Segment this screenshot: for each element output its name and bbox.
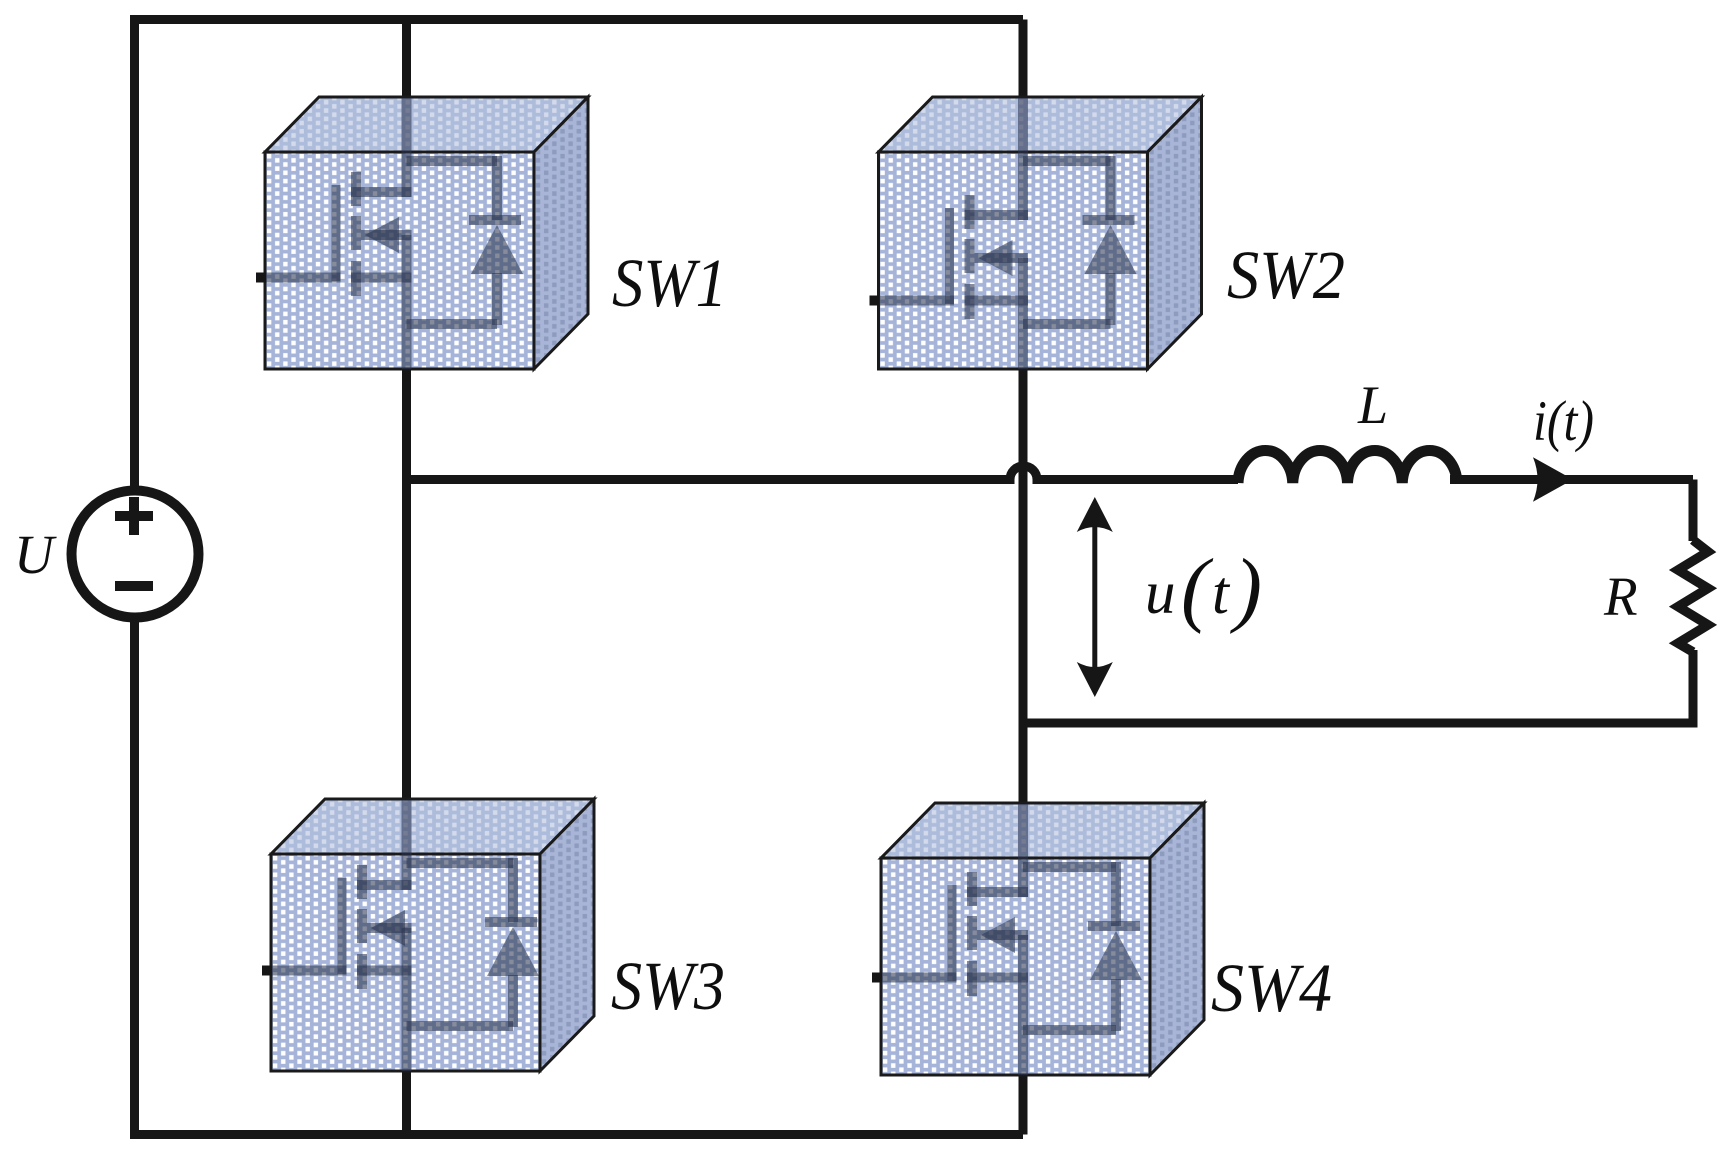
body arrow bar [367, 923, 412, 933]
svg-text:L: L [1357, 375, 1388, 435]
wire load right upper [1689, 480, 1698, 542]
channel top segment [967, 872, 977, 906]
gate bar [332, 185, 341, 281]
box right face [1148, 97, 1202, 369]
diode triangle [487, 927, 539, 976]
body arrow head [371, 910, 405, 946]
svg-text:t: t [1212, 560, 1231, 627]
gate lead [271, 966, 347, 976]
diode bottom bar [1023, 319, 1111, 329]
body arrow bar [975, 253, 1029, 263]
gate terminal stub [872, 973, 882, 983]
drain bar [357, 880, 412, 890]
body arrow head [365, 217, 399, 253]
diode bottom bar [407, 319, 498, 329]
box front face [271, 854, 540, 1071]
switch SW3: 3D box with MOSFET + body diode [262, 799, 594, 1071]
box top face [265, 97, 588, 152]
body arrow head [981, 917, 1015, 953]
switch SW4: 3D box with MOSFET + body diode [872, 803, 1204, 1075]
channel top segment [351, 172, 361, 206]
svg-text:): ) [1230, 542, 1262, 635]
source lead [1018, 258, 1028, 369]
source bar [967, 973, 1028, 983]
gate lead [265, 273, 341, 283]
box right face [534, 97, 588, 369]
source bar [965, 296, 1029, 306]
diode top lead [1106, 156, 1116, 220]
diode bottom lead [492, 273, 502, 325]
drain bar [965, 210, 1029, 220]
source lead [1018, 935, 1028, 1075]
drain lead [1018, 98, 1028, 220]
diode bottom lead [1111, 979, 1121, 1031]
channel mid segment [351, 216, 361, 250]
diode top lead [1111, 862, 1121, 926]
box right face [1150, 803, 1204, 1075]
diode triangle [471, 225, 523, 274]
channel mid segment [357, 909, 367, 943]
diode top lead [492, 156, 502, 220]
box right face [540, 799, 594, 1071]
switch SW1: 3D box with MOSFET + body diode [256, 97, 588, 369]
channel bottom segment [965, 284, 975, 319]
diode cathode bar [1083, 215, 1135, 225]
svg-text:SW1: SW1 [612, 245, 727, 321]
wire load top [1450, 475, 1693, 484]
diode top bar [407, 156, 498, 166]
body arrow bar [361, 230, 412, 240]
transistor SW1 symbol [265, 98, 523, 369]
gate bar [945, 208, 954, 304]
diode triangle [1085, 225, 1137, 274]
source lead [402, 928, 412, 1071]
channel top segment [357, 865, 367, 899]
transistor SW2 symbol [879, 98, 1137, 369]
diode bottom lead [1106, 273, 1116, 325]
switch SW2: 3D box with MOSFET + body diode [870, 97, 1202, 369]
body arrow bar [977, 930, 1028, 940]
diode top bar [407, 858, 514, 868]
diode bottom bar [407, 1021, 514, 1031]
arrow u(t) double-headed [1077, 497, 1113, 697]
drain bar [967, 887, 1028, 897]
diode cathode bar [469, 215, 521, 225]
voltage source U [72, 491, 199, 618]
svg-text:SW3: SW3 [611, 948, 725, 1024]
box top face [879, 97, 1202, 152]
source bar [351, 273, 412, 283]
diode triangle [1090, 931, 1142, 980]
source lead [402, 235, 412, 369]
svg-text:SW2: SW2 [1227, 237, 1345, 313]
channel bottom segment [351, 261, 361, 296]
transistor SW4 symbol [881, 804, 1142, 1075]
channel bottom segment [967, 961, 977, 996]
gate terminal stub [870, 296, 880, 306]
diode bottom lead [508, 975, 518, 1027]
svg-text:SW4: SW4 [1211, 950, 1332, 1026]
wire outer loop [135, 20, 1024, 1135]
gate bar [338, 878, 347, 974]
svg-text:u: u [1145, 560, 1176, 627]
svg-text:R: R [1603, 566, 1638, 627]
channel mid segment [967, 916, 977, 950]
box top face [271, 799, 594, 854]
drain bar [351, 187, 412, 197]
source bar [357, 966, 412, 976]
wire left bridge leg [402, 20, 411, 1135]
gate terminal stub [256, 273, 266, 283]
gate bar [948, 885, 957, 981]
channel bottom segment [357, 954, 367, 989]
drain lead [402, 800, 412, 890]
channel top segment [965, 195, 975, 229]
svg-text:U: U [14, 524, 57, 585]
box front face [881, 858, 1150, 1075]
diode top bar [1023, 156, 1111, 166]
body arrow head [979, 240, 1013, 276]
transistor SW3 symbol [271, 800, 539, 1071]
wire mid output with hop [407, 466, 1239, 479]
diode top lead [508, 858, 518, 922]
arrow i(t) [1533, 457, 1573, 501]
drain lead [1018, 804, 1028, 897]
wire right bridge leg [1019, 20, 1028, 1135]
diode cathode bar [485, 917, 537, 927]
box front face [265, 152, 534, 369]
channel mid segment [965, 239, 975, 273]
gate lead [881, 973, 957, 983]
box top face [881, 803, 1204, 858]
gate lead [879, 296, 955, 306]
diode bottom bar [1023, 1025, 1116, 1035]
gate terminal stub [262, 966, 272, 976]
inductor L coil [1238, 450, 1457, 483]
diode top bar [1023, 862, 1116, 872]
box front face [879, 152, 1148, 369]
wire load right lower + bottom [1023, 650, 1693, 723]
resistor R zigzag [1678, 540, 1708, 652]
diode cathode bar [1088, 921, 1140, 931]
drain lead [402, 98, 412, 197]
svg-text:i(t): i(t) [1533, 390, 1594, 453]
